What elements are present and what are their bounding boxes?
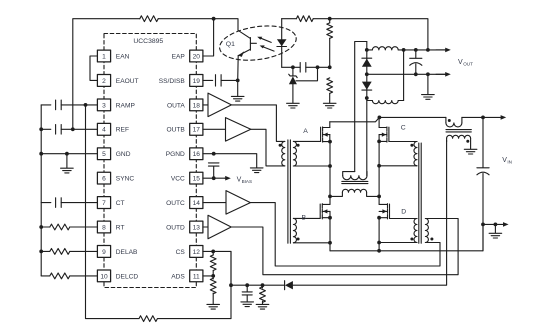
capacitor VCC bypass C <box>208 163 219 166</box>
mosfet Q_A label <box>303 128 308 135</box>
wire left rail <box>40 105 42 276</box>
svg-text:GND: GND <box>116 151 131 158</box>
wire top-left feedback vertical <box>73 19 140 130</box>
svg-text:14: 14 <box>193 200 201 207</box>
ground PGND <box>250 168 263 173</box>
label VOUT <box>458 59 473 66</box>
arrow VBIAS <box>225 176 231 181</box>
mosfet Q_C label <box>401 125 406 132</box>
wire B source to bottom rail <box>329 211 331 217</box>
pin 18 label OUTA <box>167 102 185 109</box>
ground CS cap <box>241 302 254 307</box>
pin 7 box (CT) <box>97 197 110 209</box>
wire VIN- rail <box>483 223 495 225</box>
zener diode DZ <box>289 67 298 103</box>
node A source junction <box>328 140 332 144</box>
capacitor SS C <box>216 75 222 86</box>
capacitor CT C <box>56 198 62 208</box>
capacitor VIN C (polarized) <box>477 168 489 175</box>
pin 4 label REF <box>116 127 129 134</box>
wire cap to SS node <box>221 79 238 81</box>
wire opto row left <box>282 66 301 68</box>
transistor Q1 label <box>226 41 235 48</box>
wire LED anode from top <box>281 19 283 47</box>
wire T1 primary bottom lead <box>282 165 285 167</box>
wire cap to VCC row <box>213 166 215 178</box>
node output cap bottom junction <box>414 72 418 76</box>
svg-text:4: 4 <box>102 127 106 134</box>
node VIN+ junction <box>481 116 485 120</box>
pin 12 label CS <box>176 249 186 256</box>
svg-text:17: 17 <box>193 127 201 134</box>
ground zener <box>287 103 300 108</box>
wire secondary left riser <box>355 42 367 172</box>
node D source rail junction <box>377 249 381 253</box>
node opto row right junction <box>316 65 320 69</box>
pin 8 box (RT) <box>97 221 110 233</box>
wire secondary right riser <box>366 42 368 176</box>
wire DELCD lead left <box>41 275 50 277</box>
svg-text:1: 1 <box>102 53 106 60</box>
ground CS res <box>256 304 269 309</box>
resistor DELCD R <box>50 273 70 279</box>
wire cap to pin3 RAMP <box>61 104 97 106</box>
resistor bottom-run R <box>139 316 157 322</box>
transistor Q1 phototransistor <box>238 30 256 57</box>
transformer T4 secondary <box>447 135 471 149</box>
mosfet Q_D <box>379 204 389 219</box>
pin 6 box (SYNC) <box>97 172 110 184</box>
arrow VOUT- terminal <box>436 72 451 77</box>
buffer OUTB U2B <box>203 118 251 142</box>
pin 3 label RAMP <box>116 102 136 109</box>
svg-text:BIAS: BIAS <box>242 179 252 184</box>
label VIN <box>502 157 512 165</box>
buffer OUTC U2C <box>203 191 251 215</box>
pin 3 box (RAMP) <box>97 99 110 111</box>
wire CS cap lead <box>246 285 248 292</box>
IC U1 label UCC3895 <box>133 38 163 45</box>
wire bridge bottom rail <box>330 224 483 250</box>
node L1 out junction <box>402 48 406 52</box>
svg-text:D: D <box>401 208 406 215</box>
node phase C-D primary junction <box>377 195 381 199</box>
resistor CS divider upper <box>210 251 216 276</box>
wire RT lead right <box>70 226 98 228</box>
IC U1 UCC3895 dashed outline <box>104 34 196 288</box>
pin 14 box (OUTC) <box>190 197 203 209</box>
wire SS ground stem <box>237 80 239 96</box>
svg-text:B: B <box>302 215 307 222</box>
wire pin1-pin2 bracket <box>90 56 97 80</box>
wire OUTC to T2 primary bottom <box>250 203 440 266</box>
svg-text:9: 9 <box>102 249 106 256</box>
wire T1 secB top to gate B <box>293 217 320 219</box>
node C source T2 junction <box>377 164 381 168</box>
wire VOUT+ rail <box>404 49 446 51</box>
svg-text:SYNC: SYNC <box>116 176 135 183</box>
node zener junction <box>291 65 295 69</box>
wire CS to filter corner <box>213 251 231 285</box>
node T1 primary dot <box>279 144 282 147</box>
node VOUT sense junction <box>426 48 430 52</box>
node C drain junction <box>378 116 382 120</box>
node ADS junction <box>211 274 215 278</box>
diode rectifier lower D4 <box>362 82 372 91</box>
resistor opto-top R <box>296 16 313 22</box>
wire OUTD to T2 primary top <box>231 219 458 275</box>
resistor divider upper R <box>327 19 333 68</box>
wire LED top to resistor <box>282 18 297 20</box>
diode CS rectifier D2 <box>285 281 293 290</box>
wire GND row <box>41 153 97 155</box>
pin 10 box (DELCD) <box>97 270 110 282</box>
wire LED cathode down <box>281 47 283 68</box>
wire CS cap ground lead <box>246 295 248 302</box>
ground divider <box>323 103 336 108</box>
wire cap to pin7 CT <box>61 202 97 204</box>
mosfet Q_A <box>321 127 330 142</box>
node VIN- ground junction <box>494 223 498 227</box>
capacitor output C (polarized) <box>410 50 422 74</box>
node RT rail junction <box>39 225 43 229</box>
node B source junction <box>328 216 332 220</box>
pin 1 label EAN <box>116 53 130 60</box>
wire pin19 to cap <box>203 79 213 81</box>
wire pin12 CS to node <box>203 250 213 252</box>
wire VOUT- rail <box>367 73 445 75</box>
pin 11 box (ADS) <box>190 270 203 282</box>
node SS junction <box>236 79 240 83</box>
node B source bottom junction <box>328 241 332 245</box>
node output ground junction <box>426 72 430 76</box>
node T1 secA dot <box>297 144 300 147</box>
svg-text:2: 2 <box>102 78 106 85</box>
pin 17 box (OUTB) <box>190 123 203 135</box>
wire T1 secA top to gate A <box>293 140 320 142</box>
svg-text:C: C <box>401 125 406 132</box>
svg-text:OUT: OUT <box>463 62 473 67</box>
node C source junction <box>377 140 381 144</box>
ground T4 secondary <box>464 149 477 154</box>
node D source bottom junction <box>377 241 381 245</box>
optocoupler Q1 dashed ellipse <box>217 21 298 64</box>
wire EAP pin20 to top <box>203 19 214 56</box>
wire T1 secB bottom to source B <box>293 242 330 244</box>
svg-text:12: 12 <box>193 249 201 256</box>
pin 20 label EAP <box>172 53 186 60</box>
light arrow 1 <box>257 37 271 43</box>
svg-text:6: 6 <box>102 176 106 183</box>
wire inductor right ends <box>403 50 405 101</box>
pin 9 label DELAB <box>116 249 138 256</box>
capacitor CS filter C <box>242 292 252 295</box>
pin 15 label VCC <box>171 176 185 183</box>
wire OUTA to T1 primary top <box>231 105 281 141</box>
label VBIAS <box>237 176 252 184</box>
svg-text:UCC3895: UCC3895 <box>133 38 163 45</box>
transformer T1 secondary B winding <box>293 218 296 242</box>
node filter bottom-left junction <box>365 96 369 100</box>
pin 13 label OUTD <box>166 224 185 231</box>
node CS filter junction <box>229 283 233 287</box>
svg-text:PGND: PGND <box>166 151 185 158</box>
capacitor RAMP C <box>56 100 62 110</box>
pin 15 box (VCC) <box>190 172 203 184</box>
node EAP-top junction <box>212 17 216 21</box>
light arrow 2 <box>260 45 275 51</box>
node T2 secD dot <box>410 238 413 241</box>
resistor CS divider lower <box>210 276 216 304</box>
node CS divider top <box>211 250 215 254</box>
wire C gate lead <box>389 141 414 143</box>
resistor CS filter R <box>260 285 266 304</box>
wire opto row right <box>306 66 330 68</box>
svg-text:IN: IN <box>507 160 512 165</box>
pin 14 label OUTC <box>166 200 185 207</box>
inductor L1 top winding <box>367 47 404 50</box>
pin 16 label PGND <box>166 151 185 158</box>
wire bridge top rail <box>330 117 446 121</box>
transformer T3 primary winding <box>330 189 379 196</box>
svg-text:5: 5 <box>102 151 106 158</box>
resistor divider lower R <box>327 78 333 103</box>
wire phase rail A-B upper <box>329 142 331 205</box>
ground CS divider <box>207 304 220 309</box>
wire output ground stem <box>427 74 429 94</box>
wire RT lead left <box>41 226 50 228</box>
pin 8 label RT <box>116 224 125 231</box>
wire CS filter row <box>231 284 284 286</box>
resistor RT R <box>50 224 70 230</box>
node T2 primary dot <box>430 238 433 241</box>
svg-text:OUTC: OUTC <box>166 200 185 207</box>
ground SS node <box>231 96 244 101</box>
transformer T1 primary winding <box>282 141 285 166</box>
node phase A-B secA junction <box>328 164 332 168</box>
node phase A-B primary junction <box>328 195 332 199</box>
wire CT rail to cap <box>41 202 51 204</box>
svg-text:16: 16 <box>193 151 201 158</box>
wire VIN- ground stem <box>494 224 496 233</box>
wire cap to pin4 REF <box>61 128 97 130</box>
svg-text:15: 15 <box>193 176 201 183</box>
wire REF rail to cap <box>41 128 51 130</box>
node T2 secC dot <box>410 144 413 147</box>
node GND ground junction <box>65 152 69 156</box>
ground output <box>422 95 435 100</box>
wire D gate lead <box>390 218 415 220</box>
resistor DELAB R <box>50 249 70 255</box>
arrow VIN- terminal <box>495 222 508 227</box>
transformer T3 secondary winding <box>343 172 367 180</box>
node output cap top junction <box>414 48 418 52</box>
wire D source down <box>378 218 380 251</box>
wire RAMP to CS bottom run <box>86 105 139 319</box>
wire A drain to top rail <box>329 122 331 128</box>
wire phase rail C-D upper <box>378 141 380 204</box>
pin 20 box (EAP) <box>190 50 203 62</box>
node rectifier mid junction <box>365 72 369 76</box>
pin 7 label CT <box>116 200 125 207</box>
svg-text:CS: CS <box>176 249 186 256</box>
mosfet Q_C <box>379 127 389 142</box>
wire bottom-run to CS node <box>158 251 231 318</box>
node T4 primary dot <box>448 119 451 122</box>
pin 5 box (GND) <box>97 148 110 160</box>
pin 17 label OUTB <box>166 127 185 134</box>
svg-text:RAMP: RAMP <box>116 102 136 109</box>
wire top to EAP node <box>158 18 213 20</box>
node CS res junction <box>261 283 265 287</box>
pin 16 box (PGND) <box>190 148 203 160</box>
wire top to VOUT sense <box>330 19 428 50</box>
pin 10 label DELCD <box>116 273 139 280</box>
svg-text:DELCD: DELCD <box>116 273 139 280</box>
svg-text:CT: CT <box>116 200 125 207</box>
transformer T2 core <box>419 143 421 243</box>
transformer T1 core <box>288 140 291 243</box>
transformer T2 primary winding <box>425 219 440 243</box>
wire DELAB lead right <box>70 250 98 252</box>
svg-text:19: 19 <box>193 78 201 85</box>
pin 2 label EAOUT <box>116 78 139 85</box>
node divider top <box>328 17 332 21</box>
transformer T4 core <box>446 130 471 132</box>
svg-text:7: 7 <box>102 200 106 207</box>
wire pin11 ADS <box>203 275 213 277</box>
wire Q1 emitter down <box>237 56 240 81</box>
wire resistor to divider node <box>313 18 330 20</box>
node DELAB rail junction <box>39 250 43 254</box>
svg-text:18: 18 <box>193 102 201 109</box>
pin 4 box (REF) <box>97 123 110 135</box>
svg-text:OUTD: OUTD <box>166 224 185 231</box>
arrow VOUT+ terminal <box>436 48 451 53</box>
svg-text:20: 20 <box>193 53 201 60</box>
capacitor opto C <box>300 63 306 73</box>
svg-text:SS/DISB: SS/DISB <box>159 78 186 85</box>
svg-text:13: 13 <box>193 224 201 231</box>
pin 9 box (DELAB) <box>97 246 110 258</box>
pin 19 box (SS/DISB) <box>190 75 203 87</box>
node REF feedback junction <box>71 127 75 131</box>
svg-text:EAP: EAP <box>172 53 186 60</box>
svg-text:RT: RT <box>116 224 125 231</box>
buffer OUTA U2A <box>203 93 232 117</box>
pin 19 label SS/DISB <box>159 78 186 85</box>
node VCC junction <box>212 176 216 180</box>
node REF rail junction <box>39 127 43 131</box>
svg-text:10: 10 <box>100 273 108 280</box>
mosfet Q_B <box>320 204 330 219</box>
capacitor REF C <box>56 125 62 135</box>
svg-text:EAOUT: EAOUT <box>116 78 139 85</box>
transformer T4 primary <box>446 117 462 127</box>
pin 2 box (EAOUT) <box>97 75 110 87</box>
pin 12 box (CS) <box>190 246 203 258</box>
node T1 secB dot <box>297 238 300 241</box>
wire T1 primary top lead <box>282 140 285 142</box>
node divider mid junction <box>328 65 332 69</box>
svg-text:8: 8 <box>102 224 106 231</box>
wire T1 secA bottom to source A <box>293 165 330 167</box>
diode LED D1 <box>277 39 287 46</box>
node filter top-left junction <box>365 48 369 52</box>
buffer OUTD U2D <box>203 215 231 239</box>
wire RAMP rail to cap <box>41 104 51 106</box>
pin 18 box (OUTA) <box>190 99 203 111</box>
wire CS to current transformer <box>293 141 447 286</box>
arrow VIN+ terminal <box>483 115 506 120</box>
transformer T3 core <box>342 181 368 183</box>
svg-text:DELAB: DELAB <box>116 249 138 256</box>
wire VIN cap top lead <box>482 117 484 167</box>
wire GND ground stem <box>66 154 68 168</box>
ground GND pin5 <box>61 168 74 173</box>
pin 5 label GND <box>116 151 131 158</box>
wire VIN cap bottom lead <box>482 173 484 250</box>
pin 1 box (EAN) <box>97 50 110 62</box>
svg-text:ADS: ADS <box>171 273 185 280</box>
svg-text:Q1: Q1 <box>226 41 235 48</box>
svg-text:OUTB: OUTB <box>166 127 185 134</box>
transformer T1 secondary A winding <box>293 141 296 166</box>
mosfet Q_D label <box>401 208 406 215</box>
wire DELAB lead left <box>41 250 50 252</box>
svg-text:OUTA: OUTA <box>167 102 185 109</box>
svg-text:REF: REF <box>116 127 129 134</box>
node D source junction <box>377 216 381 220</box>
wire B source down <box>329 218 331 251</box>
svg-text:VCC: VCC <box>171 176 185 183</box>
wire DELCD lead right <box>70 275 98 277</box>
svg-text:A: A <box>303 128 308 135</box>
ground VIN- <box>489 233 502 238</box>
svg-text:11: 11 <box>193 273 200 280</box>
wire OUTB to T1 primary bottom <box>251 129 282 166</box>
wire C drain to rail <box>378 117 380 127</box>
svg-text:3: 3 <box>102 102 106 109</box>
node GND rail junction <box>39 152 43 156</box>
resistor feedback R (top) <box>140 16 158 22</box>
wire cap-right L route <box>296 67 318 81</box>
inductor L1 bottom winding <box>367 101 404 104</box>
transformer T2 secondary C winding <box>379 142 417 166</box>
pin 11 label ADS <box>171 273 185 280</box>
wire VCC row <box>203 177 225 179</box>
wire VIN+ rail <box>462 116 483 118</box>
node T4 secondary dot <box>466 140 469 143</box>
node RAMP junction <box>84 103 88 107</box>
node PGND cap junction <box>212 152 216 156</box>
wire Q1 collector from top <box>214 19 238 31</box>
svg-text:EAN: EAN <box>116 53 130 60</box>
diode rectifier upper D3 <box>362 58 372 67</box>
pin 13 box (OUTD) <box>190 221 203 233</box>
mosfet Q_B label <box>302 215 307 222</box>
node VIN- junction <box>481 223 485 227</box>
pin 6 label SYNC <box>116 176 135 183</box>
transformer T2 secondary D winding <box>379 219 417 243</box>
node CS cap junction <box>245 283 249 287</box>
wire PGND to ground <box>203 154 257 168</box>
